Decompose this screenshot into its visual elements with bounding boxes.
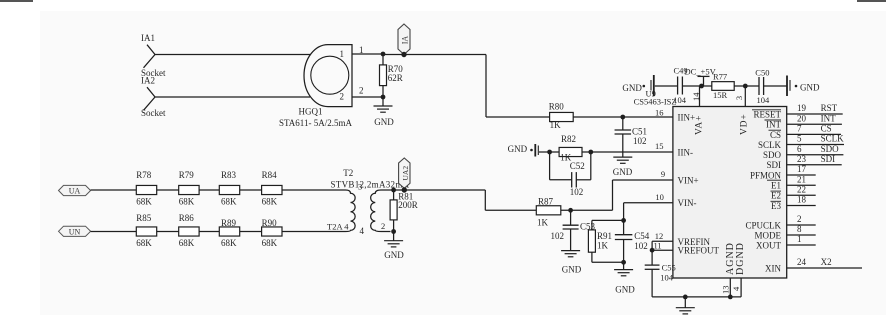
svg-text:IA1: IA1	[141, 33, 155, 43]
svg-text:C49: C49	[674, 65, 688, 75]
svg-text:C52: C52	[570, 161, 585, 171]
svg-text:102: 102	[570, 187, 584, 197]
svg-text:GND: GND	[562, 264, 582, 274]
svg-text:DGND: DGND	[735, 242, 746, 275]
svg-text:E3: E3	[771, 201, 781, 211]
svg-text:R79: R79	[179, 170, 195, 180]
svg-text:9: 9	[661, 169, 665, 179]
svg-text:UA2: UA2	[401, 166, 410, 181]
svg-text:RST: RST	[821, 103, 838, 113]
svg-text:PFMON: PFMON	[750, 170, 782, 180]
svg-text:7: 7	[797, 124, 802, 134]
svg-text:68K: 68K	[221, 197, 237, 207]
svg-text:1: 1	[340, 49, 345, 59]
svg-text:23: 23	[797, 154, 807, 164]
svg-text:2: 2	[359, 86, 364, 96]
svg-text:RESET: RESET	[753, 109, 781, 119]
svg-text:GND: GND	[384, 250, 404, 260]
svg-text:STA611- 5A/2.5mA: STA611- 5A/2.5mA	[279, 118, 352, 128]
svg-text:IA2: IA2	[141, 76, 155, 86]
svg-text:XOUT: XOUT	[756, 240, 781, 250]
svg-text:68K: 68K	[179, 197, 195, 207]
svg-text:GND: GND	[613, 167, 633, 177]
svg-text:68K: 68K	[179, 238, 195, 248]
svg-text:R80: R80	[549, 101, 565, 111]
svg-text:R86: R86	[179, 213, 195, 223]
svg-text:68K: 68K	[262, 197, 278, 207]
svg-text:1K: 1K	[550, 120, 562, 130]
svg-text:C54: C54	[634, 231, 650, 241]
svg-text:SDI: SDI	[766, 160, 781, 170]
svg-text:2: 2	[340, 92, 345, 102]
svg-text:INT: INT	[766, 120, 781, 130]
svg-text:R77: R77	[713, 71, 727, 81]
svg-text:102: 102	[634, 241, 648, 251]
svg-text:XIN: XIN	[765, 263, 781, 273]
svg-text:68K: 68K	[221, 238, 237, 248]
svg-text:17: 17	[797, 164, 807, 174]
svg-text:CS: CS	[821, 124, 832, 134]
svg-text:GND: GND	[374, 117, 394, 127]
svg-text:13: 13	[721, 286, 731, 295]
svg-text:R87: R87	[538, 197, 554, 207]
svg-text:R82: R82	[561, 134, 576, 144]
svg-text:IA: IA	[401, 36, 410, 45]
svg-text:GND: GND	[615, 285, 635, 295]
svg-text:102: 102	[551, 231, 565, 241]
svg-text:VD+: VD+	[739, 114, 749, 135]
svg-text:SDO: SDO	[763, 150, 782, 160]
svg-text:GND: GND	[622, 83, 642, 93]
svg-text:104: 104	[757, 95, 771, 105]
svg-text:68K: 68K	[136, 238, 152, 248]
svg-text:5: 5	[797, 134, 802, 144]
svg-text:HGQ1: HGQ1	[299, 107, 323, 117]
svg-text:E2: E2	[771, 191, 781, 201]
svg-text:10: 10	[655, 192, 664, 202]
svg-text:IIN+: IIN+	[678, 113, 696, 123]
svg-text:22: 22	[797, 185, 806, 195]
svg-text:21: 21	[797, 174, 806, 184]
svg-text:CS5463-ISZ: CS5463-ISZ	[634, 96, 677, 106]
svg-text:STVB12,2mA32mA: STVB12,2mA32mA	[331, 180, 410, 190]
svg-text:6: 6	[797, 144, 802, 154]
svg-text:DC_+5V: DC_+5V	[685, 66, 717, 76]
svg-text:R78: R78	[136, 170, 152, 180]
svg-text:T2: T2	[343, 168, 353, 178]
svg-text:INT: INT	[821, 113, 836, 123]
svg-text:R83: R83	[221, 170, 237, 180]
svg-text:R90: R90	[262, 218, 278, 228]
svg-text:2: 2	[381, 221, 385, 231]
svg-text:T2A 4: T2A 4	[327, 222, 349, 232]
svg-text:3: 3	[358, 182, 362, 192]
svg-text:3: 3	[734, 96, 744, 100]
svg-text:20: 20	[797, 113, 807, 123]
svg-text:R89: R89	[221, 218, 237, 228]
svg-text:IIN-: IIN-	[678, 148, 694, 158]
svg-text:VA+: VA+	[695, 115, 705, 135]
svg-text:14: 14	[691, 92, 701, 101]
svg-text:UN: UN	[69, 227, 81, 236]
svg-text:UA: UA	[69, 187, 81, 196]
svg-text:24: 24	[797, 257, 807, 267]
svg-text:GND: GND	[508, 144, 528, 154]
svg-text:4: 4	[731, 286, 741, 291]
svg-text:R84: R84	[262, 170, 278, 180]
svg-text:GND: GND	[800, 83, 820, 93]
svg-text:CPUCLK: CPUCLK	[745, 220, 781, 230]
svg-text:8: 8	[797, 224, 802, 234]
svg-text:19: 19	[797, 103, 807, 113]
svg-text:C50: C50	[755, 68, 769, 78]
svg-text:1K: 1K	[597, 241, 609, 251]
svg-text:62R: 62R	[388, 73, 403, 83]
svg-text:68K: 68K	[136, 197, 152, 207]
svg-text:SDO: SDO	[821, 144, 840, 154]
svg-text:C55: C55	[662, 262, 676, 272]
svg-text:1K: 1K	[537, 218, 549, 228]
svg-text:15: 15	[655, 141, 664, 151]
svg-text:104: 104	[660, 273, 674, 283]
svg-text:16: 16	[655, 108, 664, 118]
svg-text:VREFOUT: VREFOUT	[678, 246, 720, 256]
svg-text:SDI: SDI	[821, 154, 836, 164]
svg-text:CS: CS	[770, 130, 781, 140]
svg-text:200R: 200R	[398, 200, 418, 210]
svg-text:VIN-: VIN-	[678, 198, 697, 208]
svg-text:102: 102	[633, 136, 647, 146]
svg-text:18: 18	[797, 195, 807, 205]
svg-text:E1: E1	[771, 181, 781, 191]
svg-text:2: 2	[797, 214, 802, 224]
svg-text:R85: R85	[136, 213, 152, 223]
svg-text:4: 4	[360, 226, 365, 236]
svg-text:R91: R91	[597, 231, 612, 241]
svg-text:SCLK: SCLK	[758, 140, 782, 150]
svg-text:SCLK: SCLK	[821, 134, 845, 144]
svg-text:1: 1	[797, 234, 802, 244]
svg-text:X2: X2	[821, 257, 832, 267]
svg-text:VIN+: VIN+	[678, 175, 699, 185]
svg-text:15R: 15R	[713, 90, 728, 100]
svg-text:68K: 68K	[262, 238, 278, 248]
svg-text:1: 1	[359, 45, 364, 55]
svg-text:MODE: MODE	[755, 230, 782, 240]
